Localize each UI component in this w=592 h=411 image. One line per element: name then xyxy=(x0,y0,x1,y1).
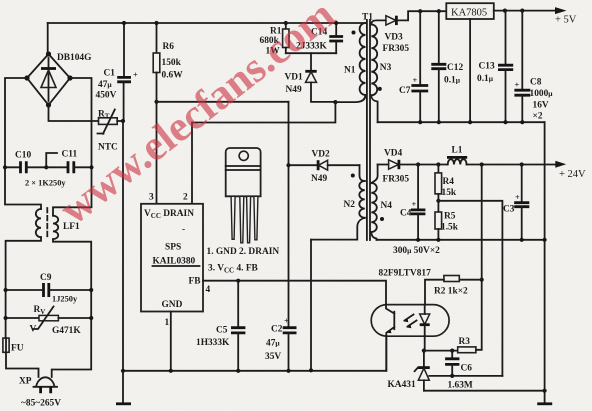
bridge rectifier DB104G xyxy=(24,51,92,107)
node primary gnd / C1 xyxy=(121,369,125,373)
node N1 bottom / drain xyxy=(333,100,337,104)
capacitor C5 1H333K xyxy=(196,281,245,371)
wire secondary ground bus column xyxy=(544,122,546,403)
node LED cathode / KA431 xyxy=(422,349,426,353)
node 5V gnd / C12 xyxy=(437,120,441,124)
capacitor C4 xyxy=(400,165,425,240)
capacitor C1 47u 450V xyxy=(96,21,139,121)
wire secondary bottom rail xyxy=(424,390,545,392)
plug XP xyxy=(19,377,61,409)
node 5V gnd / C7 xyxy=(418,120,422,124)
wire bridge top stem xyxy=(47,23,49,54)
wire R2 column from +24V xyxy=(481,165,483,280)
regulator KA7805 xyxy=(446,3,494,19)
node RT/C1 xyxy=(121,119,125,123)
resistor R6 150k xyxy=(153,21,183,102)
thermistor RT NTC xyxy=(49,105,124,153)
winding N1 xyxy=(335,23,365,102)
node 5V gnd / KA7805 gnd xyxy=(468,120,472,124)
node VCC start xyxy=(154,100,158,104)
wire LF1 left bottom xyxy=(6,237,41,338)
capacitor C12 0.1u xyxy=(431,11,463,122)
wire LF1 right bottom xyxy=(52,239,91,377)
node C10/C11 mid riser xyxy=(46,153,57,167)
capacitor C13 0.1u xyxy=(477,11,513,123)
diode VD2 N49 xyxy=(286,150,359,185)
+24V arrow xyxy=(555,161,566,168)
node 24V gnd / R5 xyxy=(436,238,440,242)
capacitor C6 xyxy=(445,349,472,376)
+5V arrow xyxy=(555,7,567,14)
wire C1 column down to primary ground xyxy=(122,121,124,371)
resistor R2 1k x2 xyxy=(425,276,482,305)
optocoupler U2 xyxy=(371,305,449,337)
node FB/C5 xyxy=(236,279,240,283)
node 5V gnd / C13 xyxy=(503,120,507,124)
wire LED cathode down xyxy=(424,336,426,350)
winding N4 xyxy=(371,165,392,240)
node R2 / feed column xyxy=(480,278,484,282)
node 5V gnd / C8 xyxy=(520,120,524,124)
wire mains bottom left xyxy=(6,352,39,377)
node R4/R5 xyxy=(436,199,440,203)
resistor R4 15k xyxy=(435,165,457,201)
node N2 return / primary gnd xyxy=(309,368,313,372)
wire feedback tap to divider xyxy=(438,201,502,376)
wire +24V rail xyxy=(467,164,557,166)
wire 5V ground rail xyxy=(378,121,545,123)
node +24V / R4 xyxy=(436,162,440,166)
node primary gnd / IC GND xyxy=(169,369,173,373)
resistor R1 680k 1W xyxy=(260,21,290,57)
wire N2 return to primary ground xyxy=(310,240,312,369)
diode VD3 FR305 xyxy=(383,11,447,54)
node C10 left / AC line xyxy=(3,165,7,169)
wire VCC horizontal xyxy=(157,101,289,103)
wire VCC pin3 column xyxy=(156,102,158,204)
wire KA7805 ground pin xyxy=(469,19,471,122)
fuse FU xyxy=(3,338,24,353)
node primary gnd / C5 xyxy=(236,369,240,373)
wire opto emitter to primary rail xyxy=(385,336,387,371)
capacitor C3 xyxy=(503,165,529,240)
node +24V / R2 column xyxy=(480,162,484,166)
shunt regulator KA431 xyxy=(388,351,430,391)
node out rail C8 xyxy=(520,9,524,13)
diode VD4 FR305 xyxy=(378,149,448,185)
capacitor C2 47u 35V xyxy=(265,317,297,371)
node 24V gnd / C4 xyxy=(416,238,420,242)
node ref / C6 xyxy=(450,374,454,378)
node +24V / C3 xyxy=(520,162,524,166)
resistor R3 xyxy=(458,280,482,353)
wire VCC vertical column to C2 xyxy=(288,102,290,328)
node +24V / C4 xyxy=(416,162,420,166)
node 24V gnd / C3 xyxy=(520,238,524,242)
wire right AC line from bridge xyxy=(53,78,92,216)
node 24V gnd / ground bus xyxy=(543,238,547,242)
wire primary ground rail xyxy=(123,336,386,371)
varistor RV G471K xyxy=(4,305,94,336)
capacitor C11 xyxy=(25,150,92,188)
ground secondary xyxy=(537,402,552,405)
node VD3 rail C12 xyxy=(437,9,441,13)
ground primary xyxy=(116,371,131,404)
common-mode choke LF1 xyxy=(36,208,80,239)
diode VD1 N49 xyxy=(285,53,336,102)
node out rail C13 xyxy=(503,9,507,13)
TO-220 package drawing xyxy=(226,148,261,243)
node VD3 rail C7 xyxy=(418,9,422,13)
wire KA431 ref line xyxy=(429,375,502,377)
winding N3 xyxy=(371,20,391,122)
capacitor C14 2J333K xyxy=(296,21,343,53)
capacitor C10 xyxy=(5,151,46,174)
node C11 right / AC line xyxy=(89,165,93,169)
wire FB line xyxy=(203,281,386,305)
wire left AC line from bridge xyxy=(5,78,41,209)
node primary gnd / C2 xyxy=(286,369,290,373)
wire drain: N1 node down and left to pin2 xyxy=(192,102,335,204)
IC U1 SPS KA1L0380 xyxy=(141,204,203,312)
capacitor C9 xyxy=(4,273,94,304)
capacitor C8 1000u 16V x2 xyxy=(514,11,553,123)
node secondary gnd / ground bus xyxy=(543,389,547,393)
resistor R5 1.5k xyxy=(435,201,459,240)
winding N2 xyxy=(311,165,365,239)
transformer T1 core xyxy=(362,13,373,241)
scan noise overlay (decorative) xyxy=(0,0,1,1)
wire IC GND pin1 xyxy=(170,312,172,371)
node C10/C11 junction xyxy=(44,165,48,169)
inductor L1 xyxy=(447,146,467,165)
wire R3/C6 node line xyxy=(424,350,458,352)
wire clamp bottom line xyxy=(286,52,336,54)
capacitor C7 xyxy=(399,11,428,122)
wire top DC+ rail xyxy=(48,22,366,24)
wire +5V output rail xyxy=(494,10,557,12)
wire 24V ground rail xyxy=(377,239,545,241)
